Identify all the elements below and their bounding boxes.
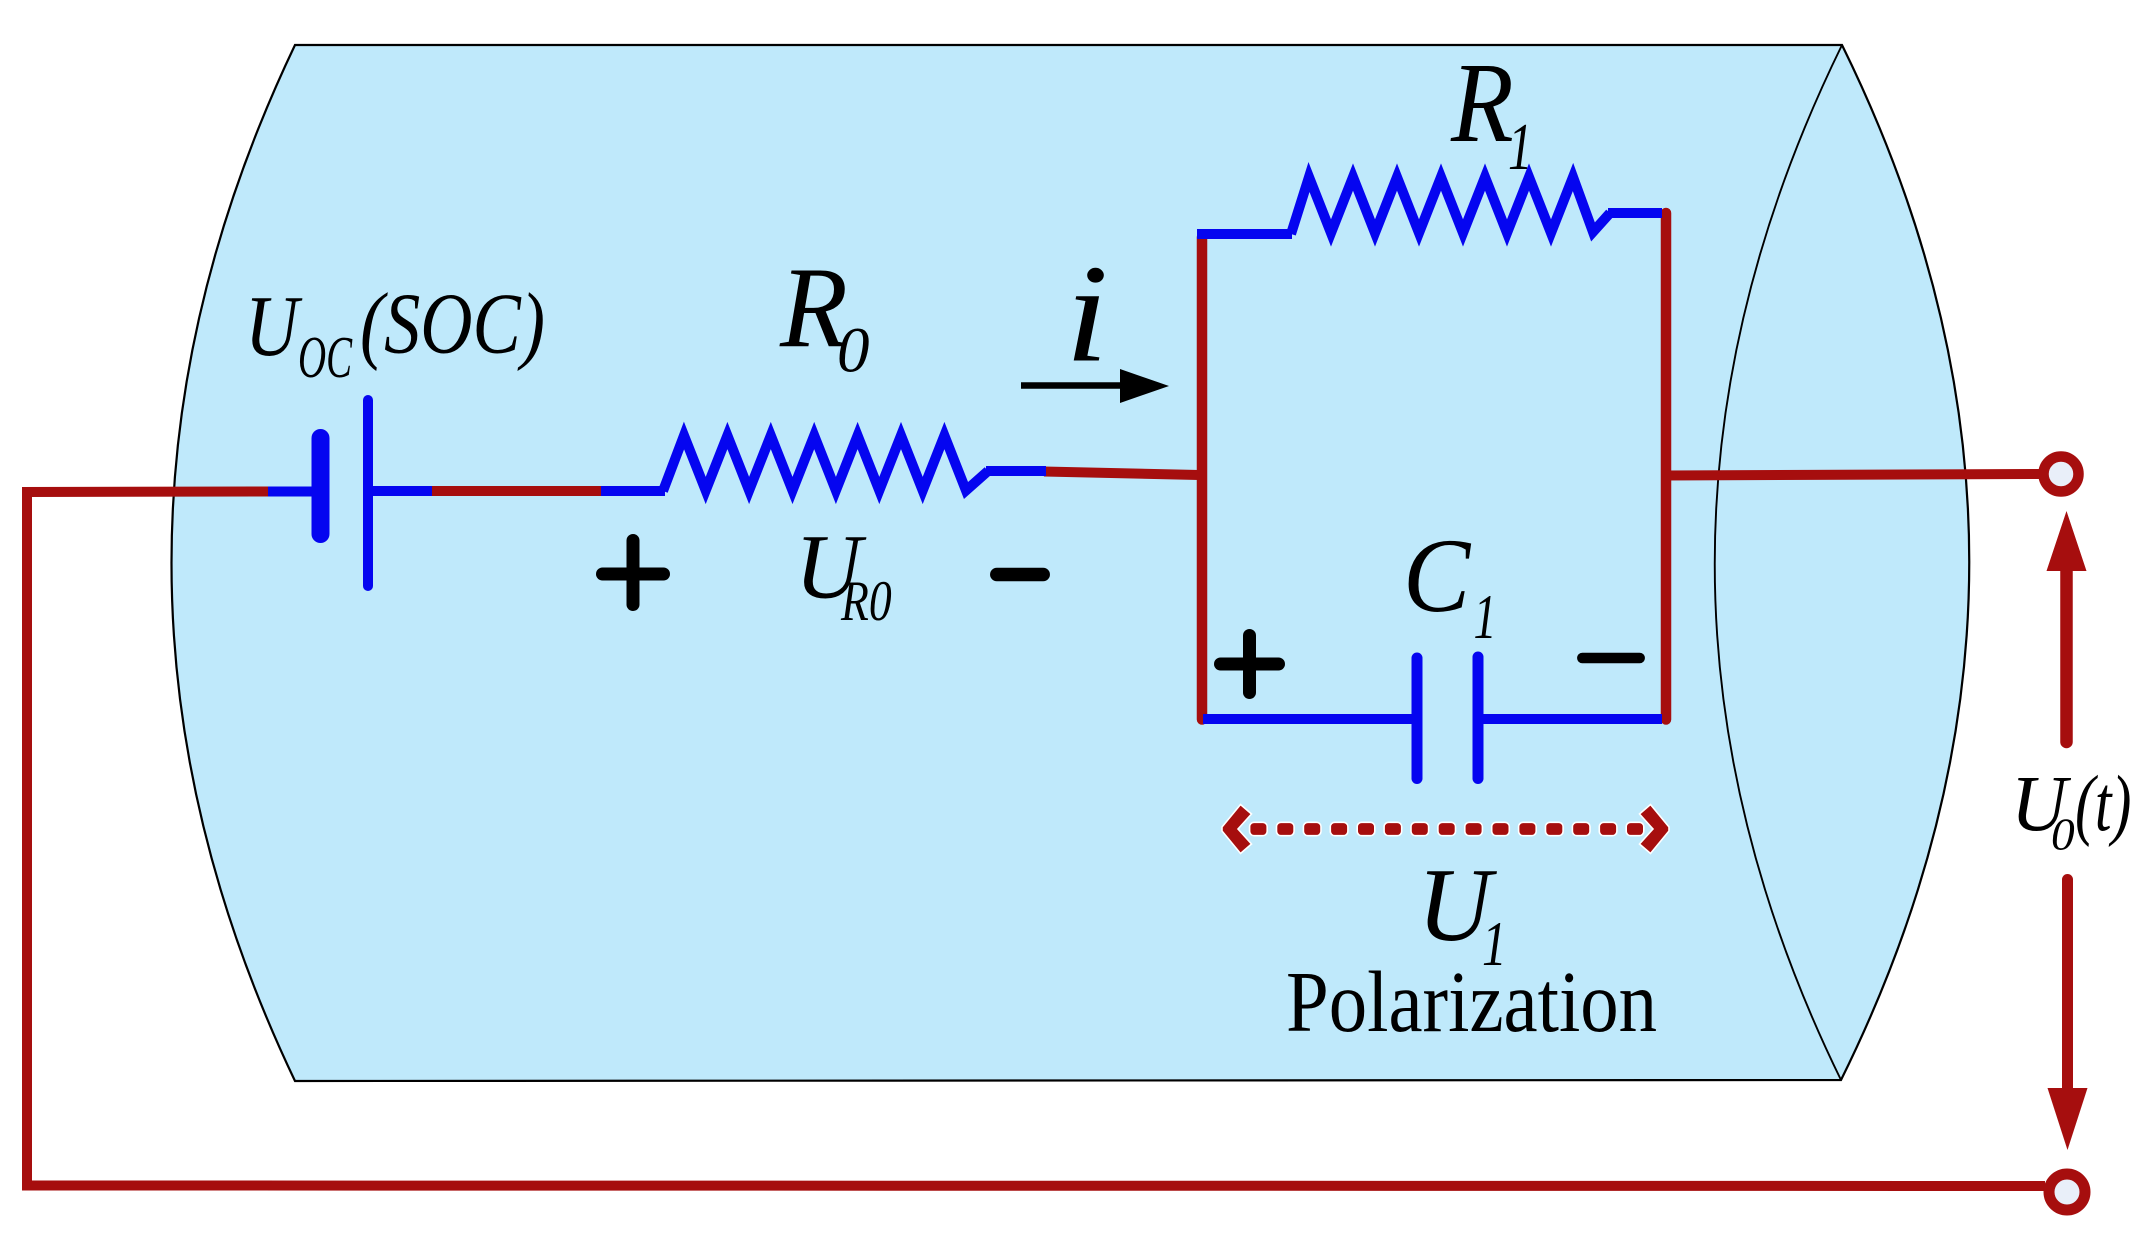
capacitor C1 right plate (1473, 657, 1484, 779)
current arrow i (black) (1021, 369, 1169, 403)
label R_1 (1450, 40, 1532, 184)
svg-text:Polarization: Polarization (1286, 954, 1657, 1050)
wire: output to positive terminal (1666, 474, 2041, 476)
svg-text:R: R (1450, 40, 1514, 166)
label U_1 (1418, 848, 1507, 980)
wire: RC block left vertical (1197, 237, 1208, 720)
svg-text:U: U (245, 278, 303, 374)
battery symbol: right lead (blue) (372, 486, 432, 496)
wire: R1 left blue stub (1197, 229, 1292, 239)
wire: left rail (negative loop) (27, 492, 2045, 1187)
svg-text:(SOC): (SOC) (360, 276, 545, 372)
svg-text:C: C (1403, 518, 1471, 635)
wire: battery positive to R0 (dark red segment) (430, 486, 603, 496)
svg-text:(t): (t) (2075, 761, 2131, 848)
terminal circle bottom (- output) (2049, 1174, 2085, 1210)
dashed span arrow U1 (dark red) (1222, 805, 1669, 854)
capacitor C1 left plate (1412, 658, 1423, 779)
svg-text:OC: OC (298, 324, 353, 390)
battery symbol: thick short plate (312, 438, 330, 534)
battery symbol: left lead (blue) (268, 487, 313, 497)
terminal circle top (+ output) (2044, 457, 2079, 492)
U0(t) measurement arrow up (2047, 511, 2087, 742)
label U_OC(SOC) (245, 276, 545, 390)
polarity minus (C1 right) (1582, 653, 1639, 664)
label U_R0 (795, 516, 892, 634)
wire: RC block right vertical (1661, 213, 1672, 720)
label U_0(t) (2011, 759, 2131, 860)
svg-text:0: 0 (2051, 809, 2075, 860)
U0(t) measurement arrow down (2048, 880, 2088, 1151)
wire: C1 right blue branch (1483, 714, 1662, 724)
wire: blue lead into R0 (601, 486, 665, 496)
svg-text:i: i (1065, 237, 1109, 391)
label R_0 (779, 243, 869, 387)
wire: R0 to RC-block junction (dark red segment) (1044, 472, 1199, 476)
resistor R0 zigzag (663, 436, 988, 492)
svg-text:1: 1 (1474, 582, 1497, 653)
wire: R1 right blue stub (1608, 208, 1662, 218)
polarity plus (C1 left) (1221, 636, 1279, 693)
label C_1 (1403, 518, 1497, 653)
svg-text:0: 0 (837, 315, 870, 387)
polarity minus (U_R0 right) (997, 568, 1043, 582)
wire: C1 left blue branch (1203, 714, 1412, 724)
polarity plus (U_R0 left) (603, 541, 664, 605)
svg-text:R0: R0 (840, 570, 892, 633)
resistor R1 zigzag (1291, 177, 1610, 234)
battery cell end-cap inner arc (1715, 45, 1842, 1080)
battery symbol: thin long plate (363, 400, 373, 586)
svg-text:1: 1 (1508, 110, 1532, 184)
wire: blue lead out of R0 (986, 466, 1046, 476)
battery cell body (cylinder) (172, 45, 1970, 1081)
